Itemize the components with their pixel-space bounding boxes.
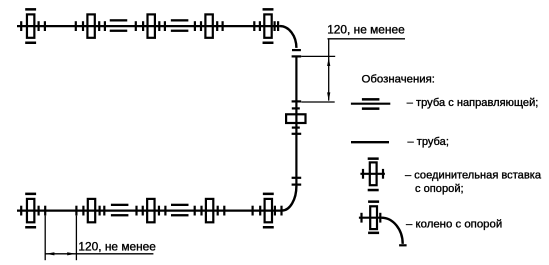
joint insert with support S1b (bottom row) — [21, 193, 38, 229]
dimension D2 extension line left — [44, 216, 46, 261]
joint insert with support S1 (top row) — [21, 8, 38, 44]
wire: vertical riser pipe — [295, 56, 297, 186]
dimension D1 arrow up — [327, 57, 330, 66]
guide pipe G2 (top row): pipe with guide bars — [165, 19, 195, 32]
riser pipe tick below insert — [292, 133, 302, 135]
pipe P1b end ticks (bottom row) — [45, 206, 76, 216]
joint insert S3b (bottom row) — [143, 199, 159, 222]
dimension D1 line — [328, 39, 330, 101]
pipe P2 end ticks (top row) — [223, 21, 255, 31]
joint insert S4 (top row) — [201, 14, 217, 37]
legend symbol L1: pipe with guide — [351, 98, 390, 110]
riser pipe start tick — [292, 55, 302, 57]
svg-text:120, не менее: 120, не менее — [327, 23, 405, 37]
svg-text:120, не менее: 120, не менее — [78, 239, 156, 253]
elbow E2 end tick — [280, 206, 282, 216]
wire: bottom header pipe run — [17, 210, 281, 212]
pipe P2b end ticks (bottom row) — [224, 206, 252, 216]
dimension D2 extension line right — [75, 216, 77, 261]
dimension D2 arrow right — [67, 252, 76, 255]
dimension D2 arrow left — [46, 252, 55, 255]
riser pipe end tick — [292, 177, 302, 179]
joint insert with support S5 (top row, before elbow) — [260, 8, 275, 44]
elbow E1 start tick — [277, 21, 279, 31]
dimension D2: horizontal 120 not less — [45, 216, 153, 261]
dimension D1 extension line bottom — [301, 101, 334, 103]
legend symbol L4: elbow with support — [359, 200, 407, 245]
joint insert S2b (bottom row) — [83, 199, 99, 222]
joint insert S3 (top row) — [143, 14, 159, 37]
joint insert C1 on riser (rotated) — [286, 108, 305, 127]
joint insert S2 (top row) — [83, 14, 99, 37]
dimension D1 arrow down — [327, 92, 330, 101]
elbow E1 end tick — [292, 49, 301, 51]
dimension D2 line — [45, 253, 153, 255]
dimension D1 extension line top — [301, 55, 335, 57]
guide pipe G1 (top row): pipe with guide bars — [105, 19, 136, 32]
svg-text:Обозначения:: Обозначения: — [362, 74, 435, 86]
pipe P1 end ticks (top row) — [45, 21, 76, 31]
elbow E1 (top right corner) — [280, 26, 297, 48]
joint insert with support S5b (bottom row, before elbow) — [260, 193, 275, 229]
elbow E2 start tick — [292, 184, 302, 186]
svg-text:– соединительная вставка: – соединительная вставка — [405, 169, 542, 181]
riser pipe tick (dimension point) — [292, 100, 302, 102]
elbow E2 (bottom right corner) — [282, 186, 297, 211]
guide pipe G2b (bottom row) — [165, 204, 194, 217]
dimension D1 leader underline — [328, 38, 406, 40]
guide pipe G1b (bottom row) — [104, 204, 136, 217]
legend symbol L3: connecting insert with support — [360, 157, 385, 191]
wire: top header pipe run — [17, 25, 280, 27]
joint insert S4b (bottom row) — [202, 199, 218, 222]
svg-text:– колено с опорой: – колено с опорой — [406, 218, 502, 230]
svg-text:– труба;: – труба; — [408, 136, 449, 148]
svg-text:– труба с направляющей;: – труба с направляющей; — [407, 97, 539, 109]
dimension D1: vertical 120 not less — [301, 39, 405, 102]
svg-text:с опорой;: с опорой; — [415, 183, 464, 195]
legend symbol L2: pipe — [351, 141, 389, 143]
